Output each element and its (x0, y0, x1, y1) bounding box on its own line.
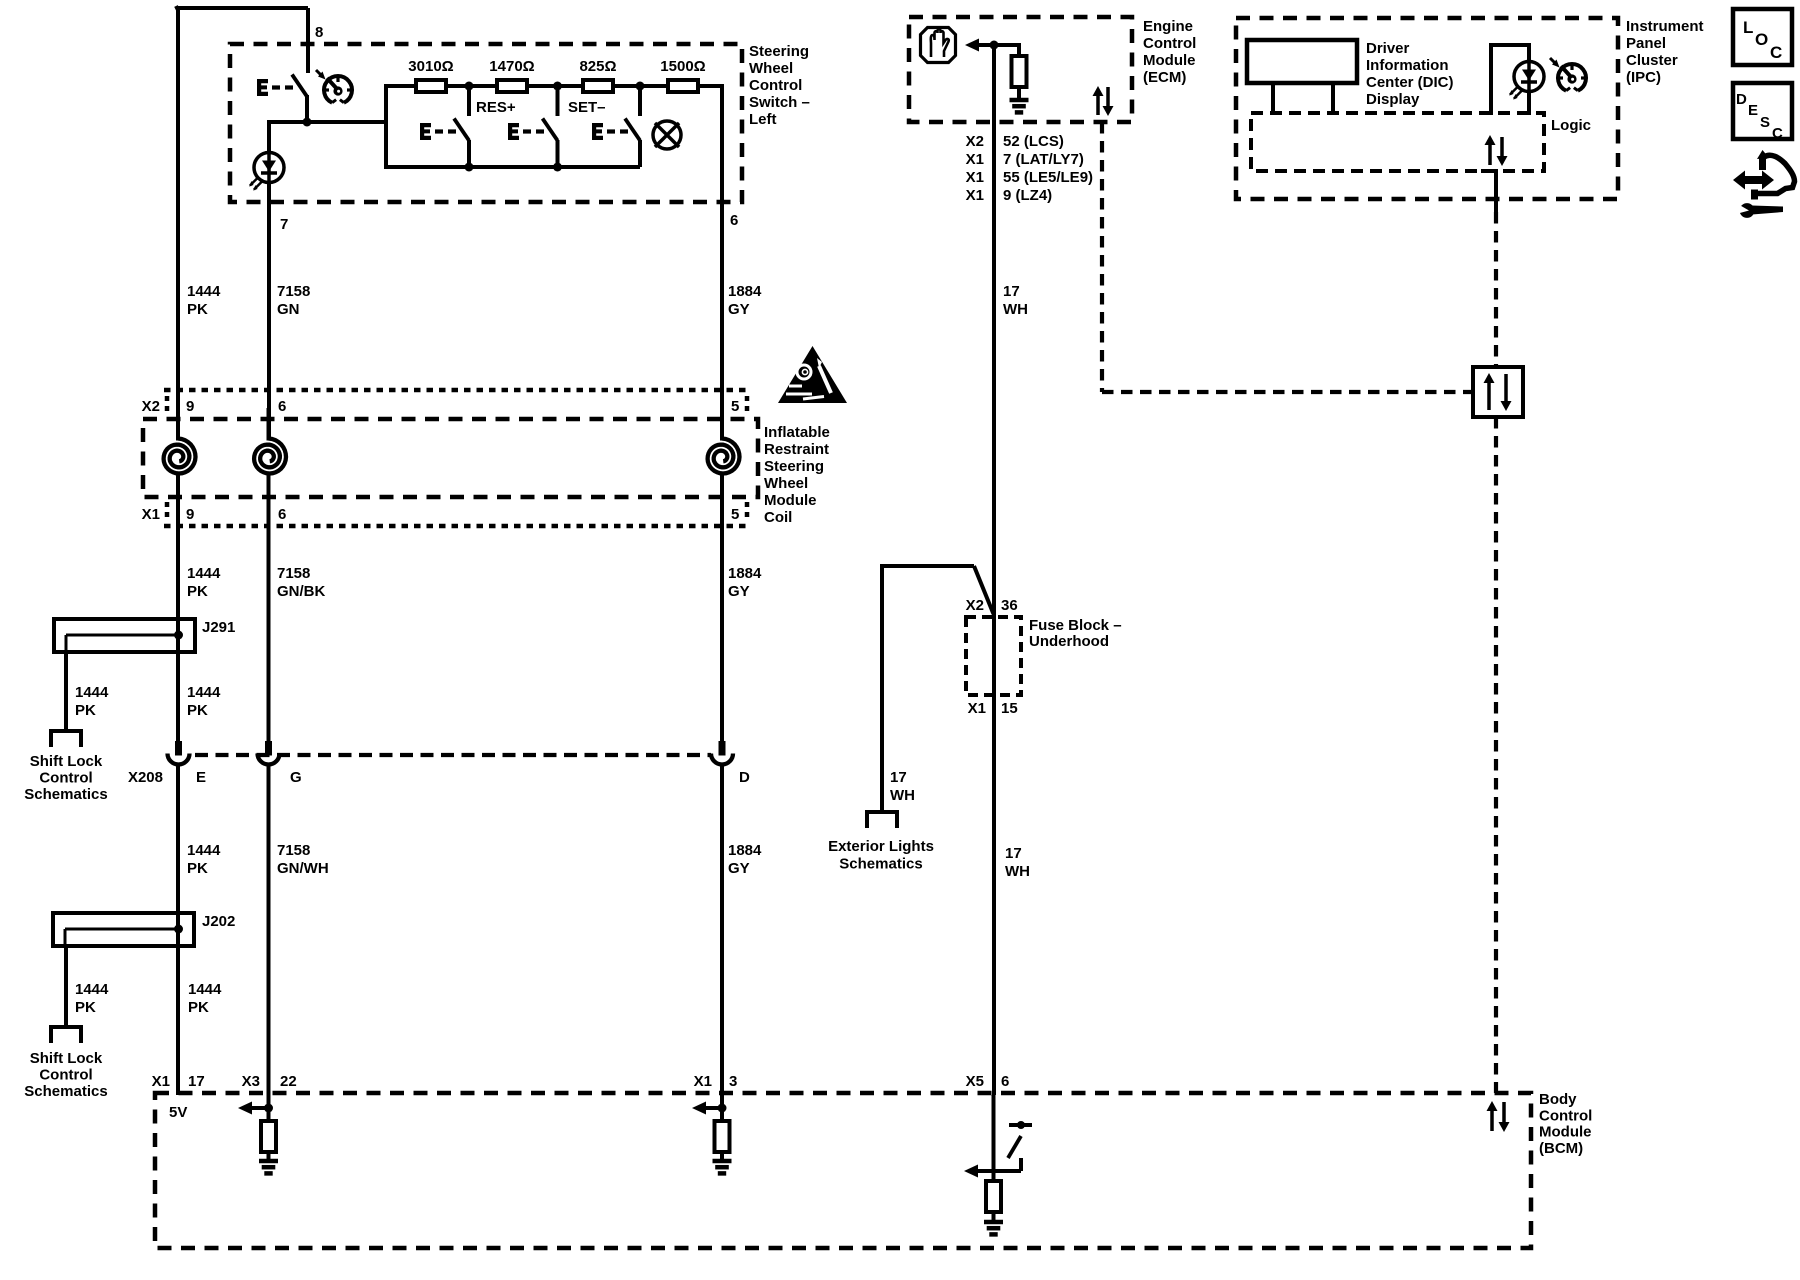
svg-text:J202: J202 (202, 913, 235, 930)
icon data up-down gateway (1484, 373, 1495, 410)
wire IPC LED lower (1527, 91, 1531, 115)
svg-text:8: 8 (315, 24, 323, 41)
svg-text:Schematics: Schematics (24, 786, 107, 803)
module box Engine Control Module (ECM) (909, 17, 1132, 122)
arrow BCM X3 5V ref (238, 1102, 268, 1115)
svg-text:Wheel: Wheel (749, 60, 793, 77)
svg-text:1444: 1444 (75, 684, 109, 701)
module box Fuse Block - Underhood (966, 617, 1021, 695)
svg-text:PK: PK (187, 583, 208, 600)
svg-text:X2: X2 (966, 597, 984, 614)
module box Body Control Module (BCM) (155, 1093, 1531, 1248)
ground BCM X3 (259, 1159, 278, 1173)
svg-text:7: 7 (280, 216, 288, 233)
resistor R4 1500 (668, 80, 698, 92)
svg-text:Control: Control (749, 77, 802, 94)
serial data dashed gateway to BCM (1494, 417, 1498, 1093)
svg-text:Display: Display (1366, 91, 1420, 108)
resistor R2 1470 (497, 80, 527, 92)
svg-text:1444: 1444 (187, 565, 221, 582)
node S3 rail (553, 163, 562, 172)
ground BCM X5 (984, 1220, 1003, 1234)
svg-text:X1: X1 (694, 1073, 712, 1090)
svg-text:Control: Control (39, 770, 92, 787)
svg-text:GN/WH: GN/WH (277, 860, 329, 877)
resistor BCM X1-3 (715, 1121, 730, 1152)
warning triangle SIR (778, 346, 847, 403)
wire R4 to pin 6 corner (698, 84, 722, 88)
svg-text:Cluster: Cluster (1626, 52, 1678, 69)
svg-text:SET–: SET– (568, 99, 606, 116)
svg-text:PK: PK (188, 999, 209, 1016)
connector X208 dashed line (195, 753, 711, 757)
svg-text:(BCM): (BCM) (1539, 1140, 1583, 1157)
gauge icon IPC cruise (1550, 58, 1586, 91)
svg-text:PK: PK (187, 860, 208, 877)
off-page bracket shift lock 1 (51, 731, 81, 747)
wire 1444 PK from top to coil X2-9 (176, 6, 180, 440)
svg-text:X208: X208 (128, 769, 163, 786)
wire R2 to node2 (527, 84, 558, 88)
node S2 rail (465, 163, 474, 172)
switch S3 with E pointer (508, 119, 558, 141)
svg-text:Engine: Engine (1143, 18, 1193, 35)
svg-text:15: 15 (1001, 700, 1018, 717)
svg-text:36: 36 (1001, 597, 1018, 614)
svg-text:17: 17 (1003, 283, 1020, 300)
icon data up-down BCM (1487, 1101, 1498, 1131)
svg-text:Wheel: Wheel (764, 475, 808, 492)
wire coil1 lower (176, 473, 180, 620)
coil L2 clockspring (254, 436, 286, 480)
switch S2 RES+ contact stub (467, 88, 471, 116)
svg-text:Information: Information (1366, 57, 1449, 74)
wire X1-3 resistor to ground (720, 1151, 724, 1161)
svg-text:E: E (1748, 102, 1758, 119)
resistor ECM pulldown (1012, 56, 1027, 87)
svg-text:Control: Control (1143, 35, 1196, 52)
svg-text:3: 3 (729, 1073, 737, 1090)
svg-text:Logic: Logic (1551, 117, 1591, 134)
icon LOC box (1733, 9, 1792, 65)
svg-text:Restraint: Restraint (764, 441, 829, 458)
icon data up-down ECM (1093, 86, 1104, 115)
module box Instrument Panel Cluster (IPC) (1236, 18, 1618, 199)
svg-text:Fuse Block –: Fuse Block – (1029, 617, 1122, 634)
wire coil3 upper (720, 408, 724, 440)
lamp illumination (653, 121, 681, 149)
svg-text:Shift Lock: Shift Lock (30, 753, 103, 770)
svg-text:WH: WH (1003, 301, 1028, 318)
svg-text:9: 9 (186, 398, 194, 415)
svg-text:X1: X1 (966, 187, 984, 204)
svg-text:D: D (1736, 91, 1747, 108)
svg-text:Steering: Steering (749, 43, 809, 60)
wire logic box to serial (1481, 169, 1496, 173)
switch BCM brake input (994, 1121, 1033, 1171)
junction switch output (303, 118, 312, 127)
svg-text:Panel: Panel (1626, 35, 1666, 52)
svg-text:1884: 1884 (728, 283, 762, 300)
connector row X1 (164, 524, 749, 529)
switch S4 contact stub (638, 88, 642, 116)
wire IPC LED feed (1489, 45, 1493, 115)
svg-text:Schematics: Schematics (24, 1083, 107, 1100)
splice pack J202 (53, 913, 194, 946)
svg-text:6: 6 (1001, 1073, 1009, 1090)
svg-text:WH: WH (890, 787, 915, 804)
ground BCM X1-3 (713, 1159, 732, 1173)
svg-text:Module: Module (1143, 52, 1196, 69)
wire coil3 lower (720, 473, 724, 742)
wire through J202 (176, 914, 180, 946)
svg-text:X1: X1 (152, 1073, 170, 1090)
wire node2 to R3 (558, 84, 584, 88)
wire branch to exterior lights (882, 564, 974, 568)
wire X3 resistor to ground (267, 1151, 271, 1161)
svg-text:Steering: Steering (764, 458, 824, 475)
svg-text:52 (LCS): 52 (LCS) (1003, 133, 1064, 150)
svg-text:5: 5 (731, 506, 739, 523)
module box Inflatable Restraint Steering Wheel Module Coil (143, 419, 758, 497)
svg-text:9: 9 (186, 506, 194, 523)
svg-text:X5: X5 (966, 1073, 984, 1090)
svg-text:X2: X2 (142, 398, 160, 415)
svg-text:PK: PK (187, 702, 208, 719)
off-page bracket shift lock 2 (51, 1027, 81, 1043)
ground ECM (1010, 98, 1029, 112)
svg-text:1444: 1444 (187, 684, 221, 701)
wire coil2 upper (267, 408, 271, 440)
switch S3 SET- contact stub (556, 88, 560, 116)
svg-text:17: 17 (1005, 845, 1022, 862)
svg-text:X1: X1 (968, 700, 986, 717)
svg-text:J291: J291 (202, 619, 235, 636)
svg-text:7158: 7158 (277, 842, 310, 859)
svg-text:GY: GY (728, 860, 750, 877)
wire steering wheel switch feed top (178, 6, 308, 10)
svg-text:22: 22 (280, 1073, 297, 1090)
wire BCM X5 internal (992, 1095, 996, 1173)
svg-text:17: 17 (890, 769, 907, 786)
wire R3 to node3 (613, 84, 641, 88)
wire D to BCM X1-3 (720, 764, 724, 1095)
hand icon octagon (921, 28, 956, 63)
svg-text:1444: 1444 (187, 842, 221, 859)
svg-text:6: 6 (278, 506, 286, 523)
svg-text:1470Ω: 1470Ω (489, 58, 534, 75)
svg-text:O: O (1755, 30, 1768, 49)
svg-text:C: C (1772, 125, 1783, 142)
junction ECM node (990, 41, 999, 50)
wire node to ECM resistor (994, 43, 1019, 47)
svg-text:Control: Control (39, 1067, 92, 1084)
wire coil2 lower (267, 473, 271, 742)
node 1 (465, 82, 474, 91)
wire J202 to BCM X1-17 (176, 946, 180, 1095)
junction BCM X1-3 (718, 1104, 727, 1113)
svg-text:(IPC): (IPC) (1626, 69, 1661, 86)
svg-text:G: G (290, 769, 302, 786)
wire through J291 (176, 620, 180, 742)
module box Steering Wheel Control Switch - Left (230, 44, 742, 202)
LED IPC cruise indicator (1509, 62, 1544, 100)
svg-text:X2: X2 (966, 133, 984, 150)
svg-text:X1: X1 (142, 506, 160, 523)
svg-text:1500Ω: 1500Ω (660, 58, 705, 75)
arrow ECM output left (965, 39, 996, 52)
svg-text:Driver: Driver (1366, 40, 1410, 57)
wire X5 resistor to ground (992, 1173, 996, 1181)
switch S1 cruise on/off with E pointer (257, 75, 307, 97)
svg-text:7 (LAT/LY7): 7 (LAT/LY7) (1003, 151, 1084, 168)
junction BCM X3 (264, 1104, 273, 1113)
wire BCM X1-3 internal (720, 1095, 724, 1122)
svg-text:1444: 1444 (188, 981, 222, 998)
svg-text:D: D (739, 769, 750, 786)
svg-text:Coil: Coil (764, 509, 792, 526)
svg-text:Instrument: Instrument (1626, 18, 1704, 35)
serial data dashed ECM to gateway (1100, 122, 1104, 392)
wire DIC legs (1271, 83, 1275, 115)
wire node3 to R4 (640, 84, 668, 88)
node 2 (553, 82, 562, 91)
svg-text:Exterior Lights: Exterior Lights (828, 838, 934, 855)
svg-text:1884: 1884 (728, 565, 762, 582)
svg-text:6: 6 (278, 398, 286, 415)
wire to LED (267, 120, 271, 153)
arrow BCM X1-3 5V ref (692, 1102, 721, 1115)
coil L1 clockspring (164, 436, 196, 480)
LED cruise indicator (249, 153, 284, 191)
connector X208 terminal G (258, 741, 280, 765)
wire 17 WH ECM to BCM X5-6 (992, 45, 996, 1095)
svg-text:X1: X1 (966, 169, 984, 186)
icon connector end view with wrench (1733, 150, 1795, 218)
svg-text:PK: PK (75, 999, 96, 1016)
svg-text:Center (DIC): Center (DIC) (1366, 74, 1454, 91)
svg-text:Module: Module (764, 492, 817, 509)
arrow BCM X5 ref (964, 1165, 994, 1178)
svg-text:PK: PK (187, 301, 208, 318)
connector X208 terminal D (711, 741, 733, 765)
icon DESC box (1733, 83, 1792, 139)
wire LED to pin 7 (267, 182, 271, 440)
wire S3 blade to rail (556, 140, 560, 169)
svg-text:Left: Left (749, 111, 777, 128)
wire J202 branch 1444 PK (64, 946, 68, 1027)
wire ECM resistor to ground (1017, 86, 1021, 100)
svg-text:WH: WH (1005, 863, 1030, 880)
svg-text:GN/BK: GN/BK (277, 583, 326, 600)
resistor BCM X3 (261, 1121, 276, 1152)
svg-text:(ECM): (ECM) (1143, 69, 1186, 86)
svg-text:Shift Lock: Shift Lock (30, 1050, 103, 1067)
svg-text:5V: 5V (169, 1104, 187, 1121)
DIC display block (1247, 40, 1357, 83)
svg-text:5: 5 (731, 398, 739, 415)
svg-text:1444: 1444 (187, 283, 221, 300)
svg-text:RES+: RES+ (476, 99, 516, 116)
svg-text:7158: 7158 (277, 283, 310, 300)
svg-text:X1: X1 (966, 151, 984, 168)
gauge icon cruise control (316, 70, 352, 103)
svg-text:X3: X3 (242, 1073, 260, 1090)
switch S2 with E pointer (420, 119, 469, 141)
svg-text:Underhood: Underhood (1029, 633, 1109, 650)
connector X208 terminal E (168, 741, 190, 765)
svg-text:GY: GY (728, 301, 750, 318)
svg-text:9 (LZ4): 9 (LZ4) (1003, 187, 1052, 204)
svg-text:Inflatable: Inflatable (764, 424, 830, 441)
wire junction to ladder (269, 120, 386, 124)
wire terminal 8 drop (306, 8, 310, 73)
wire ladder left rail (384, 84, 388, 169)
svg-text:1444: 1444 (75, 981, 109, 998)
svg-text:GN: GN (277, 301, 300, 318)
icon data up-down IPC logic (1485, 135, 1496, 165)
serial data gateway box (1473, 367, 1523, 417)
svg-text:55 (LE5/LE9): 55 (LE5/LE9) (1003, 169, 1093, 186)
wire S2 blade to rail (467, 140, 471, 169)
svg-text:Body: Body (1539, 1091, 1577, 1108)
wire node1 to R2 (469, 84, 497, 88)
wire R1 to node1 (446, 84, 470, 88)
svg-text:C: C (1770, 43, 1782, 62)
wire E to J202 (176, 764, 180, 914)
svg-text:6: 6 (730, 212, 738, 229)
svg-text:Module: Module (1539, 1124, 1592, 1141)
svg-text:Control: Control (1539, 1107, 1592, 1124)
off-page bracket exterior lights (867, 812, 897, 828)
svg-text:GY: GY (728, 583, 750, 600)
wire S4 blade to rail (638, 140, 642, 167)
resistor R1 3010 (416, 80, 446, 92)
logic box IPC (1251, 113, 1544, 171)
serial data dashed IPC down (1494, 212, 1498, 367)
svg-text:17: 17 (188, 1073, 205, 1090)
svg-text:S: S (1760, 114, 1770, 131)
wire G to BCM X3-22 (267, 764, 271, 1095)
coil L3 clockspring (708, 436, 740, 480)
splice pack J291 (54, 619, 195, 652)
wire switch S1 to junction (305, 95, 309, 122)
svg-text:825Ω: 825Ω (579, 58, 616, 75)
connector row X2 (164, 388, 749, 393)
svg-text:E: E (196, 769, 206, 786)
svg-text:1884: 1884 (728, 842, 762, 859)
wire BCM X3 internal (267, 1095, 271, 1122)
wire J291 branch 1444 PK (64, 652, 68, 731)
svg-text:Schematics: Schematics (839, 856, 922, 873)
svg-text:L: L (1743, 18, 1753, 37)
svg-text:PK: PK (75, 702, 96, 719)
svg-text:3010Ω: 3010Ω (408, 58, 453, 75)
svg-text:Switch –: Switch – (749, 94, 810, 111)
node 3 (636, 82, 645, 91)
switch S4 with E pointer (592, 119, 640, 141)
resistor R3 825 (583, 80, 613, 92)
wire ladder bottom rail (384, 165, 640, 169)
resistor BCM X5 (986, 1181, 1001, 1212)
svg-text:7158: 7158 (277, 565, 310, 582)
